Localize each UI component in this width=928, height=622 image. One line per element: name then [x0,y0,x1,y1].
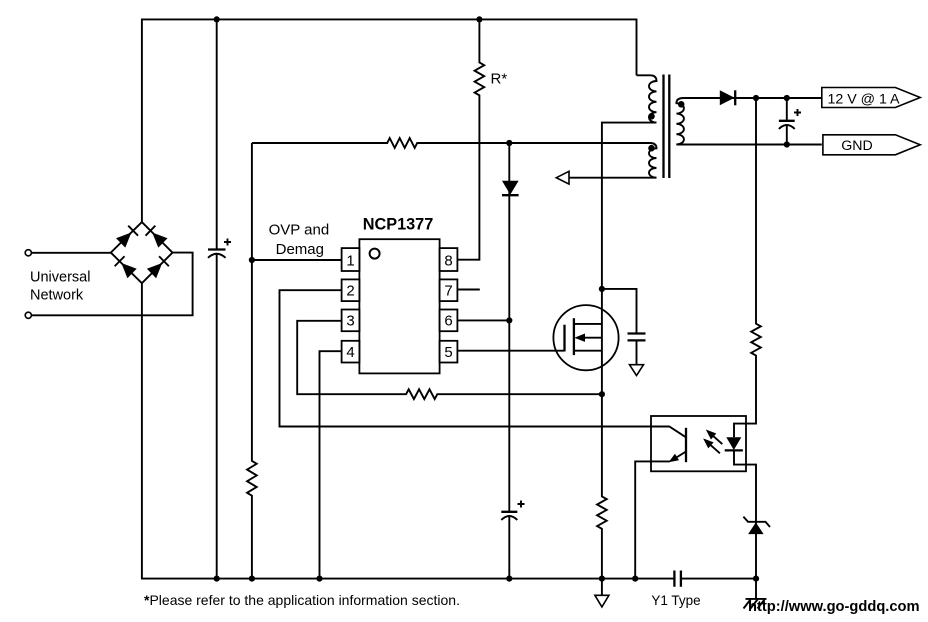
wire: Vcc vertical line [508,143,510,512]
bridge rectifier diamond [111,222,173,283]
ground arrow below rail at sense line [601,579,603,596]
wire: bottom rail right of Y1 [681,578,756,580]
pin 8 box [440,248,458,271]
flag: GND output [823,135,920,155]
junction dot 12V at feedback [753,95,759,101]
svg-text:8: 8 [444,252,452,269]
junction dot rail at Vcc cap [506,576,512,582]
wire: opto emitter to bottom rail [635,461,670,578]
capacitor C3 Vcc [501,511,517,513]
svg-text:R*: R* [491,71,508,88]
wire: pin 5 to MOSFET gate [457,350,564,352]
junction dot GND at output cap [784,141,790,147]
svg-text:12 V @ 1 A: 12 V @ 1 A [828,91,901,107]
ground arrow snubber [630,365,644,376]
wire: OVP line with resistor to bottom rail [247,143,257,579]
wire: bottom rail left of Y1 [142,283,675,578]
wire: pin 1 to OVP node [252,259,342,261]
wire: opto LED cathode to zener [734,450,756,578]
svg-text:5: 5 [444,344,452,361]
terminal: AC input bottom [25,312,31,318]
primary polarity dot [648,113,655,120]
junction dot pin6/Vcc [506,317,512,323]
wire: bulk cap upper lead [216,19,218,249]
junction dot 12V at output cap [784,95,790,101]
wire: sense resistor to bottom rail [597,394,607,578]
transformer primary winding [637,75,657,122]
transformer T1 core [664,75,670,179]
svg-text:Network: Network [30,288,84,304]
junction dot rail at opto emitter [632,576,638,582]
junction dot source/CS [599,391,605,397]
svg-text:7: 7 [444,283,452,300]
svg-text:*Please refer to the applicati: *Please refer to the application informa… [144,592,460,608]
junction dot rail at sense resistor [599,576,605,582]
wire: primary bottom to MOSFET drain [602,123,657,395]
wire: bridge plus to top rail to transformer primary [142,19,637,222]
svg-text:2: 2 [346,283,354,300]
wire: pin 6 to Vcc line [457,319,509,321]
svg-text:3: 3 [346,313,354,330]
transformer aux winding [649,143,657,178]
MOSFET drain finger [574,323,602,325]
transformer secondary winding [676,98,684,144]
wire: aux top with resistor to winding [252,138,650,148]
pin 1 box [342,248,360,271]
chassis ground at secondary return [755,579,757,599]
junction dot rail at OVP resistor [249,576,255,582]
svg-text:GND: GND [841,138,873,154]
junction dot pin1/OVP [249,257,255,263]
junction dot aux/Vcc diode [506,140,512,146]
wire: pin 7 stub [457,289,479,291]
svg-text:4: 4 [346,344,354,361]
junction dot rail at zener [753,576,759,582]
bridge diode lower-left [115,256,137,278]
pin 4 box [342,341,360,363]
resistor R* with wire to pin 8 [457,19,484,259]
aux polarity dot [648,145,655,152]
bridge diode upper-right [146,226,168,248]
MOSFET gate bar [563,325,565,352]
capacitor C5 output [786,98,788,121]
opto emitter with arrow [674,452,687,460]
svg-text:6: 6 [444,313,452,330]
opto light arrow 2 [707,441,720,453]
pin 1 indicator circle [370,249,380,259]
capacitor C4 snubber [628,334,646,341]
pin 7 box [440,279,458,301]
MOSFET body arrow [582,337,602,339]
MOSFET channel bar [573,318,575,355]
wire: pin 3 current sense with resistor [297,321,602,399]
diode D2 Vcc rectifier [502,181,519,195]
pin 6 box [440,310,458,332]
secondary polarity dot [678,101,685,108]
svg-text:Universal: Universal [30,270,90,286]
wire: AC top terminal to bridge left [32,252,111,254]
opto light arrow 1 [709,432,722,444]
MOSFET Q1 circle [553,305,618,370]
wire: secondary top 12V rail [684,97,822,99]
junction dot top rail at bulk cap [214,16,220,22]
wire: AC bottom terminal to bridge right [32,253,193,316]
IC U1 NCP1377 body [359,239,439,373]
pin 2 box [342,279,360,301]
demag arrow [556,171,569,184]
wire: pin 4 ground [320,351,342,578]
opto phototransistor base bar [685,428,687,462]
wire: bulk cap lower lead [216,254,218,579]
svg-text:Demag: Demag [276,241,324,258]
flag: 12 V @ 1 A output [822,88,920,108]
capacitor C6 Y1 type [674,571,681,587]
terminal: AC input top [25,250,31,256]
wire: Vcc cap lower lead [508,516,510,579]
optocoupler U2 box [651,416,746,471]
bridge diode lower-right [147,256,169,278]
diode D3 secondary rectifier [720,90,735,105]
junction dot drain/snubber [599,286,605,292]
wire: snubber cap to ground [636,341,638,365]
wire: snubber branch [602,289,637,333]
wire: aux bottom to demag arrow [569,177,657,179]
junction dot rail at pin4 [316,576,322,582]
svg-text:http://www.go-gddq.com: http://www.go-gddq.com [748,599,920,615]
wire: secondary bottom GND rail [676,144,821,146]
capacitor C1 bulk electrolytic [208,248,226,250]
MOSFET source finger [574,350,602,352]
pin 3 box [342,310,360,332]
opto LED [726,437,741,450]
zener diode Z1 [748,522,764,534]
junction dot top rail at R* [476,16,482,22]
svg-text:OVP and: OVP and [269,222,330,239]
wire: feedback vertical with resistor to opto LED anode [734,98,761,437]
bridge diode upper-left [116,226,138,248]
svg-text:1: 1 [346,252,354,269]
svg-text:Y1 Type: Y1 Type [651,593,700,608]
pin 5 box [440,341,458,363]
junction dot rail at bulk cap [214,576,220,582]
wire: pin 2 feedback to optocoupler [280,290,687,437]
svg-text:NCP1377: NCP1377 [363,215,434,233]
